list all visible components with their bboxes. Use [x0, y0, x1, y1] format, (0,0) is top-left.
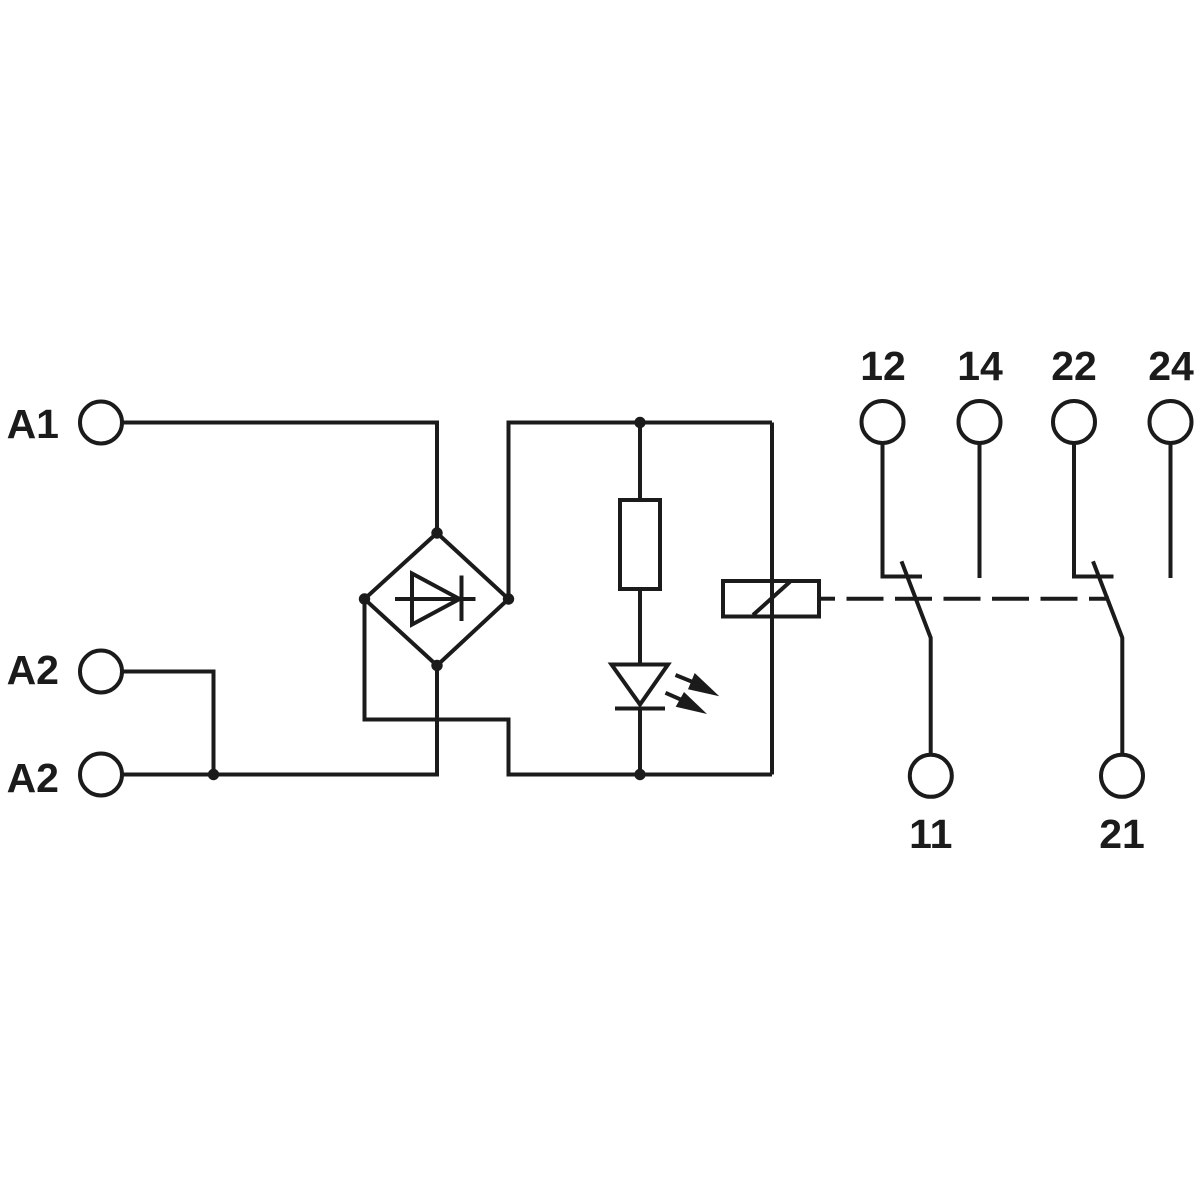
- svg-text:A1: A1: [7, 401, 59, 447]
- terminal 24: [1150, 401, 1192, 443]
- terminal 11: [910, 755, 952, 797]
- wire right vertical through relay: [770, 423, 774, 775]
- terminal 22: [1053, 401, 1095, 443]
- junction bridge top: [431, 527, 442, 538]
- terminal 14: [959, 401, 1001, 443]
- junction bridge bottom: [431, 660, 442, 671]
- wire terminal 12 fixed contact: [883, 444, 923, 577]
- wire terminal 22 fixed contact: [1074, 444, 1114, 577]
- svg-text:24: 24: [1148, 343, 1194, 389]
- relay coil K1: [723, 581, 819, 617]
- wire bridge left to bottom rail: [365, 599, 773, 775]
- bridge diode anode line: [395, 597, 476, 601]
- contact blade 11-12: [902, 561, 931, 753]
- relay actuator stub: [819, 597, 835, 601]
- junction bottom rail LED: [634, 769, 645, 780]
- junction A2 wires: [208, 769, 219, 780]
- terminal A1: [80, 402, 122, 444]
- terminal A2 (lower): [80, 754, 122, 796]
- terminal 21: [1101, 755, 1143, 797]
- wire A2 upper to bottom rail: [122, 672, 214, 775]
- bridge rectifier V1 diamond: [365, 533, 509, 666]
- LED cathode bar: [615, 707, 665, 711]
- wire bridge right to top rail: [509, 423, 773, 600]
- svg-text:22: 22: [1051, 343, 1097, 389]
- wire resistor to LED: [638, 589, 642, 665]
- wire terminal 14 fixed contact: [978, 444, 982, 579]
- junction bridge right: [503, 593, 514, 604]
- svg-text:11: 11: [909, 811, 952, 857]
- svg-text:A2: A2: [7, 647, 59, 693]
- wire A2 lower to bridge bottom: [122, 666, 437, 775]
- svg-text:14: 14: [957, 343, 1003, 389]
- wire LED to bottom rail: [638, 709, 642, 775]
- bridge diode triangle: [412, 574, 460, 625]
- svg-text:12: 12: [860, 343, 906, 389]
- svg-text:21: 21: [1099, 811, 1145, 857]
- terminal 12: [862, 401, 904, 443]
- wire top rail to resistor: [638, 423, 642, 501]
- wire terminal 24 fixed contact: [1169, 444, 1173, 579]
- resistor R1: [620, 500, 660, 589]
- bridge diode cathode bar: [460, 576, 464, 622]
- LED light arrow lower head: [676, 692, 707, 714]
- mechanical link dashed: [847, 597, 1110, 601]
- wire A1 to bridge top: [122, 423, 437, 534]
- contact blade 21-22: [1093, 561, 1122, 753]
- LED light arrow upper shaft: [676, 675, 693, 682]
- LED triangle: [612, 665, 669, 705]
- relay coil diagonal: [753, 582, 790, 615]
- svg-text:A2: A2: [7, 755, 59, 801]
- terminal A2 (upper): [80, 651, 122, 693]
- LED light arrow lower shaft: [666, 693, 681, 700]
- LED light arrow upper head: [688, 673, 719, 696]
- junction bridge left: [359, 593, 370, 604]
- junction top rail resistor: [634, 417, 645, 428]
